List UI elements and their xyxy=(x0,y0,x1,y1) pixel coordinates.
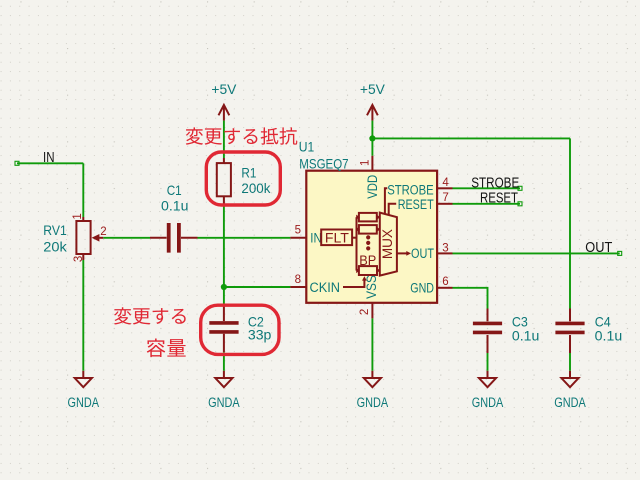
svg-text:MSGEQ7: MSGEQ7 xyxy=(299,156,348,172)
svg-text:1: 1 xyxy=(72,213,84,219)
wire +5V down to junction xyxy=(371,121,373,139)
wire junction to pin1 xyxy=(371,138,373,155)
wire node to pin8 xyxy=(224,286,291,288)
svg-text:0.1u: 0.1u xyxy=(161,198,189,214)
U1 internal RESET line xyxy=(389,204,397,215)
svg-text:6: 6 xyxy=(442,276,448,288)
label RESET xyxy=(480,191,518,207)
ground GNDA (RV1) xyxy=(68,371,100,410)
svg-text:STROBE: STROBE xyxy=(387,182,434,197)
svg-text:CKIN: CKIN xyxy=(310,280,341,295)
pin 6 GND xyxy=(410,276,452,295)
wire C1 to pin5 xyxy=(198,237,291,239)
svg-text:VDD: VDD xyxy=(365,175,380,199)
svg-text:33p: 33p xyxy=(248,327,272,343)
svg-text:MUX: MUX xyxy=(380,229,395,259)
pin 5 IN xyxy=(290,225,321,246)
svg-text:5: 5 xyxy=(295,225,301,237)
U1 internal STROBE line xyxy=(385,188,387,213)
svg-text:1: 1 xyxy=(360,160,372,166)
svg-text:GNDA: GNDA xyxy=(472,395,504,410)
power +5V (left) xyxy=(211,82,236,121)
svg-text:7: 7 xyxy=(442,192,448,204)
U1 internal OUT arrow xyxy=(397,251,411,256)
svg-text:+5V: +5V xyxy=(360,82,385,97)
capacitor C3 xyxy=(473,309,540,354)
svg-text:RESET: RESET xyxy=(480,191,518,207)
ground GNDA (C4) xyxy=(554,371,586,410)
label IN xyxy=(43,150,55,166)
wire IN horizontal xyxy=(17,162,83,164)
wire pin3 OUT xyxy=(453,252,620,254)
U1 internal filter bus xyxy=(356,217,358,270)
wire RV1 wiper to C1 xyxy=(103,237,150,239)
svg-text:20k: 20k xyxy=(43,239,68,255)
svg-text:0.1u: 0.1u xyxy=(512,327,540,343)
node OUT wire end marker xyxy=(618,251,622,255)
svg-text:GNDA: GNDA xyxy=(68,395,100,410)
wire RV1 to GNDA xyxy=(82,260,84,371)
svg-text:FLT: FLT xyxy=(325,230,349,245)
wire +5V to R1 xyxy=(223,121,225,158)
U1 internal BP label xyxy=(359,253,376,268)
wire pin2 to GNDA xyxy=(371,318,373,370)
op-amp U1 MSGEQ7 body xyxy=(299,139,437,303)
U1 internal filter box 2 xyxy=(356,225,380,234)
power +5V (right) xyxy=(360,82,385,121)
wire R1 to C2 node xyxy=(223,205,225,306)
svg-text:R1: R1 xyxy=(241,165,256,181)
U1 internal MUX trapezoid xyxy=(380,213,397,276)
ground GNDA (VSS) xyxy=(357,371,389,410)
svg-text:IN: IN xyxy=(310,230,322,245)
svg-text:GNDA: GNDA xyxy=(357,395,389,410)
annotation text 変更する抵抗 xyxy=(186,127,298,144)
wire pin4 STROBE xyxy=(453,187,521,189)
label STROBE xyxy=(471,175,519,191)
wire C3 to GNDA xyxy=(487,353,489,371)
svg-text:IN: IN xyxy=(43,150,55,166)
wire IN down to RV1 xyxy=(82,163,84,217)
svg-text:GND: GND xyxy=(410,280,434,295)
label OUT xyxy=(585,240,612,256)
junction at CKIN node xyxy=(221,284,227,290)
svg-text:GNDA: GNDA xyxy=(208,395,240,410)
svg-text:8: 8 xyxy=(295,274,301,286)
pin 1 VDD xyxy=(360,156,381,199)
svg-text:RESET: RESET xyxy=(398,197,434,212)
svg-text:+5V: +5V xyxy=(211,82,236,97)
pin 4 STROBE xyxy=(387,177,452,197)
U1 internal filter box 3 (BP) xyxy=(356,266,380,275)
U1 internal FLT block xyxy=(321,230,356,246)
wire +5V rail to right xyxy=(372,137,570,139)
wire pin6 GND to C3 xyxy=(453,288,488,309)
capacitor C1 xyxy=(150,182,198,253)
svg-text:OUT: OUT xyxy=(411,246,434,261)
capacitor C2 xyxy=(209,306,271,352)
U1 internal ellipsis dots xyxy=(366,235,370,250)
U1 internal CKIN line xyxy=(343,276,367,287)
svg-text:OUT: OUT xyxy=(585,240,612,256)
svg-text:RV1: RV1 xyxy=(43,222,67,238)
wire C4 to GNDA xyxy=(569,353,571,371)
U1 internal filter box 1 xyxy=(356,213,380,222)
svg-text:200k: 200k xyxy=(241,180,271,196)
svg-text:C1: C1 xyxy=(167,182,182,198)
pin 7 RESET xyxy=(398,192,453,212)
wire C2 to GNDA xyxy=(223,352,225,371)
svg-text:STROBE: STROBE xyxy=(471,175,519,191)
annotation text 変更する容量 xyxy=(114,307,186,357)
svg-text:U1: U1 xyxy=(299,139,315,155)
node RESET wire end marker xyxy=(518,202,522,206)
resistor R1 xyxy=(217,158,272,205)
svg-text:2: 2 xyxy=(359,309,371,315)
svg-text:VSS: VSS xyxy=(364,275,379,299)
annotation circle around R1 xyxy=(206,152,280,205)
potentiometer RV1 xyxy=(43,213,106,262)
svg-text:3: 3 xyxy=(442,242,448,254)
svg-text:2: 2 xyxy=(100,226,106,238)
ground GNDA (C2) xyxy=(208,371,240,410)
svg-text:4: 4 xyxy=(442,177,449,189)
ground GNDA (C3) xyxy=(472,371,504,410)
pin 3 OUT xyxy=(411,242,453,261)
annotation circle around C2 xyxy=(201,305,279,354)
node IN wire end marker xyxy=(15,161,19,165)
wire rail down to C4 xyxy=(569,138,571,308)
node STROBE wire end marker xyxy=(518,186,522,190)
pin 8 CKIN xyxy=(290,274,340,295)
junction at +5V rail xyxy=(369,135,375,141)
svg-text:GNDA: GNDA xyxy=(554,395,586,410)
svg-text:0.1u: 0.1u xyxy=(595,327,623,343)
capacitor C4 xyxy=(555,309,622,354)
pin 2 VSS xyxy=(359,275,379,318)
wire pin7 RESET xyxy=(453,203,521,205)
